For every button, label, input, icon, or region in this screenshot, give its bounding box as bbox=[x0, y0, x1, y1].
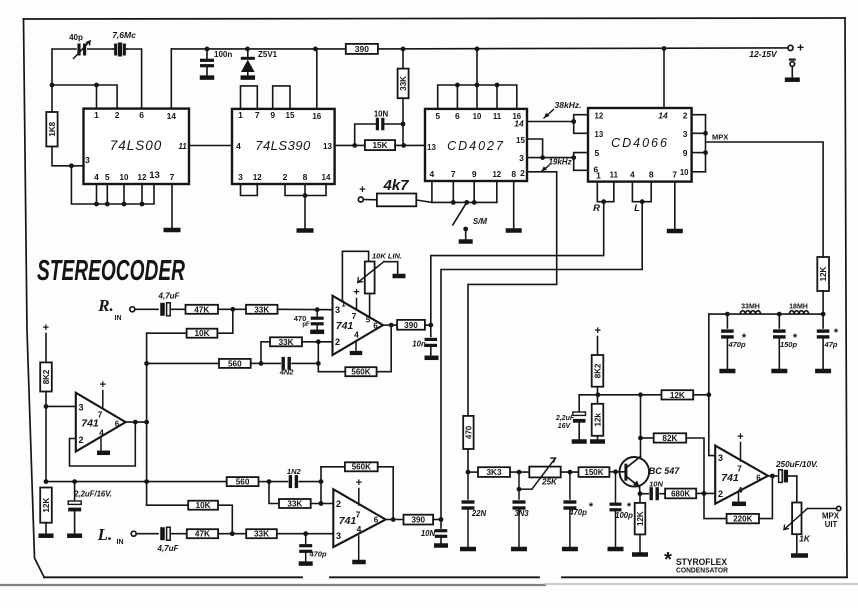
svg-text:7: 7 bbox=[672, 170, 677, 180]
op-amp U7 741 L channel bbox=[333, 477, 385, 560]
svg-text:10n: 10n bbox=[412, 340, 426, 349]
label 19kHz with arrow bbox=[542, 158, 572, 172]
wire output node bbox=[768, 475, 777, 477]
svg-text:741: 741 bbox=[81, 418, 99, 430]
wire CD4066 bottom R bus pins 1,11 bbox=[597, 182, 614, 202]
node junction 3N3 tap bbox=[517, 470, 522, 475]
svg-text:1: 1 bbox=[238, 110, 243, 120]
svg-text:15: 15 bbox=[516, 136, 525, 145]
wire L matrix bus bbox=[147, 481, 227, 483]
svg-text:560: 560 bbox=[236, 478, 250, 487]
resistor 33K L lower bbox=[246, 529, 277, 538]
svg-text:33MH: 33MH bbox=[741, 304, 760, 311]
svg-text:3: 3 bbox=[519, 153, 524, 163]
node junction 19kHz bracket bbox=[571, 155, 576, 160]
svg-text:1N2: 1N2 bbox=[287, 467, 302, 476]
svg-text:4: 4 bbox=[430, 169, 435, 179]
wire CD4066 pin14 to rail bbox=[663, 49, 665, 109]
wire to buffer pin3 bbox=[46, 405, 76, 407]
node junctions buffer output bbox=[133, 420, 149, 425]
svg-text:4N2: 4N2 bbox=[279, 368, 295, 377]
ground under 74LS00 pin7 bbox=[164, 228, 181, 233]
capacitor 250uF/10V output bbox=[775, 460, 818, 482]
svg-text:3: 3 bbox=[85, 155, 90, 165]
resistor 12K bias lower bbox=[40, 488, 52, 534]
svg-text:6: 6 bbox=[373, 322, 378, 331]
node junction pin3 R bbox=[315, 307, 320, 312]
potentiometer 4k7 bbox=[358, 177, 432, 206]
resistor 12K MPX drop bbox=[817, 257, 829, 314]
svg-text:220K: 220K bbox=[733, 514, 752, 523]
wire 15K to CD4027 pin13 bbox=[395, 144, 425, 146]
ground under buffer bbox=[97, 451, 110, 456]
svg-text:11: 11 bbox=[610, 171, 619, 180]
svg-text:13: 13 bbox=[427, 143, 436, 152]
wire 25K to 150K bbox=[561, 471, 579, 473]
transistor Q1 BC547 bbox=[620, 457, 681, 488]
wire 33K to pin3 R opamp bbox=[278, 308, 333, 310]
svg-text:16: 16 bbox=[312, 112, 321, 121]
resistor 10K L bbox=[147, 501, 233, 534]
capacitor 100n decoupling bbox=[200, 49, 232, 76]
wire mixer node to 3K3 bbox=[468, 471, 478, 473]
wire 390 to L line bbox=[433, 519, 441, 521]
svg-text:13: 13 bbox=[595, 130, 604, 139]
capacitor 3N3 bbox=[513, 472, 530, 547]
svg-text:82K: 82K bbox=[662, 434, 677, 443]
wire R matrix bus bbox=[147, 362, 219, 364]
svg-text:14: 14 bbox=[514, 119, 524, 129]
node junction buffer pin3 bbox=[44, 404, 49, 409]
resistor 680K bbox=[665, 489, 696, 499]
wire 74LS00 pin11 to 74LS390 pin4 bbox=[189, 145, 232, 147]
svg-text:2: 2 bbox=[78, 435, 83, 445]
svg-text:18MH: 18MH bbox=[789, 304, 808, 311]
svg-text:4,7uF: 4,7uF bbox=[157, 544, 180, 553]
svg-text:CD4066: CD4066 bbox=[611, 136, 669, 150]
wire 47K to 33K R bbox=[218, 308, 246, 310]
svg-text:2,2uF: 2,2uF bbox=[555, 415, 575, 422]
resistor 47K R bbox=[186, 305, 219, 314]
svg-text:5: 5 bbox=[105, 172, 110, 182]
svg-text:+: + bbox=[737, 431, 743, 443]
svg-text:741: 741 bbox=[339, 515, 357, 527]
wire pin3 CD4027 to CD4066 pins 5,6 bbox=[527, 153, 588, 171]
svg-text:9: 9 bbox=[270, 110, 275, 120]
svg-text:47p: 47p bbox=[824, 340, 838, 349]
node junctions CD4027 bottom bus bbox=[451, 200, 477, 205]
node junction mixer input bbox=[466, 470, 471, 475]
resistor 470 pilot bbox=[463, 416, 473, 449]
IC U4 CD4066 bbox=[588, 108, 692, 182]
wire buffer output bbox=[126, 421, 147, 423]
svg-text:40p: 40p bbox=[69, 33, 83, 42]
potentiometer 10K LIN offset bbox=[342, 251, 402, 317]
wire L opamp output bbox=[386, 519, 404, 521]
svg-text:12-15V: 12-15V bbox=[749, 49, 778, 59]
svg-text:3K3: 3K3 bbox=[486, 468, 501, 477]
wire top-left oscillator loop bbox=[52, 49, 142, 109]
label R channel bbox=[593, 203, 600, 214]
svg-text:10: 10 bbox=[120, 173, 129, 182]
svg-text:7,6Mc: 7,6Mc bbox=[112, 30, 136, 40]
wire 1K pot to ground bbox=[796, 534, 798, 553]
svg-text:+: + bbox=[43, 322, 49, 334]
resistor 390 L output bbox=[404, 515, 434, 525]
ground under 470p filter bbox=[719, 369, 735, 374]
svg-text:+: + bbox=[353, 287, 359, 299]
wire bias divider vertical bbox=[45, 392, 47, 482]
wire CD4027 pin8 to ground bbox=[513, 181, 515, 229]
node junction ground stem 74LS390 bbox=[303, 193, 308, 198]
resistor 12K emitter bbox=[635, 494, 646, 553]
svg-text:CD4027: CD4027 bbox=[447, 139, 505, 153]
svg-text:4: 4 bbox=[236, 141, 241, 151]
wire CD4066 right bracket pins 2,3,9,10 bbox=[692, 115, 706, 172]
wire collector riser bbox=[640, 395, 642, 456]
svg-text:MPX: MPX bbox=[712, 133, 728, 142]
wire 74LS00 pin7 to ground bbox=[171, 184, 173, 229]
node junction 4N2 right bbox=[316, 361, 321, 366]
svg-text:Z5V1: Z5V1 bbox=[258, 50, 278, 59]
capacitor 470p mixer bbox=[563, 472, 593, 547]
resistor 1K8 bbox=[46, 85, 83, 166]
svg-text:14: 14 bbox=[658, 111, 668, 121]
svg-text:33K: 33K bbox=[254, 305, 269, 314]
ground under 47p filter bbox=[815, 369, 831, 374]
wire filter rail bbox=[709, 313, 823, 315]
svg-text:7: 7 bbox=[255, 110, 260, 120]
ground under S/M switch bbox=[459, 239, 473, 244]
node junction R input node A bbox=[230, 307, 235, 312]
ground under 470p L bbox=[299, 561, 313, 566]
svg-text:R: R bbox=[593, 203, 600, 214]
ground under 12K emitter bbox=[632, 552, 648, 557]
svg-text:6: 6 bbox=[756, 474, 761, 483]
node junction collector top bbox=[638, 392, 643, 397]
capacitor 10N emitter bbox=[640, 480, 665, 501]
terminal R input bbox=[97, 296, 135, 322]
svg-text:13: 13 bbox=[149, 170, 160, 181]
wire pin13 74LS390 to 15K bbox=[335, 144, 365, 146]
label MPX UIT bbox=[822, 512, 840, 529]
ground under 470p mixer bbox=[562, 547, 578, 552]
capacitor 4N2 R bbox=[261, 357, 318, 377]
svg-text:7: 7 bbox=[356, 510, 361, 520]
svg-text:390: 390 bbox=[411, 516, 425, 525]
wire mixer supply plus bbox=[594, 325, 600, 355]
ground under 2,2uF left bbox=[67, 533, 82, 538]
svg-text:7: 7 bbox=[451, 169, 456, 179]
ground under zener bbox=[241, 75, 256, 80]
resistor 47K L bbox=[187, 529, 218, 538]
capacitor 10N L output bbox=[421, 520, 447, 544]
svg-text:BC 547: BC 547 bbox=[649, 466, 681, 476]
svg-text:R.: R. bbox=[97, 296, 114, 315]
node junction filter feed bbox=[706, 392, 711, 397]
wire 470 to mixer node bbox=[467, 449, 469, 472]
note styroflex condensator bbox=[664, 549, 728, 575]
wire L switch line to L opamp output bbox=[441, 202, 642, 520]
wire R switch line to R opamp output bbox=[431, 202, 604, 325]
svg-text:3: 3 bbox=[78, 403, 83, 413]
terminal L input bbox=[97, 525, 137, 546]
node junction 10N right bbox=[401, 122, 406, 127]
ground under 470pF bbox=[310, 330, 324, 335]
node junction pin3 L bbox=[303, 531, 308, 536]
wire 680K to pin2 of output opamp bbox=[696, 492, 715, 494]
capacitor 2,2uF/16V bias bbox=[68, 482, 112, 534]
node junction collector at 82K bbox=[638, 436, 643, 441]
wire pin15 CD4027 loop to pin3 wire bbox=[527, 139, 543, 158]
resistor 33K (vertical from rail) bbox=[398, 49, 409, 145]
svg-text:8: 8 bbox=[303, 172, 308, 182]
node junction pin15 join bbox=[540, 155, 545, 160]
resistor 220K feedback bbox=[704, 476, 772, 523]
svg-text:+: + bbox=[100, 379, 106, 391]
wire matrix spine vertical bbox=[146, 333, 148, 505]
ground under 12k mixer bbox=[590, 439, 605, 444]
svg-text:*: * bbox=[589, 501, 594, 513]
svg-text:7: 7 bbox=[170, 172, 175, 182]
zener diode Z5V1 bbox=[241, 49, 278, 76]
node junction L input node bbox=[230, 531, 235, 536]
capacitor 47p filter bbox=[817, 314, 839, 369]
svg-text:12: 12 bbox=[253, 173, 262, 182]
node junction filter cap3 bbox=[821, 312, 826, 317]
svg-text:4,7uF: 4,7uF bbox=[158, 292, 181, 301]
svg-text:5: 5 bbox=[595, 148, 600, 158]
wire 3K3 to 25K bbox=[510, 471, 529, 473]
inductor 33MH bbox=[740, 304, 760, 315]
svg-text:4: 4 bbox=[94, 172, 99, 182]
svg-text:6: 6 bbox=[115, 420, 120, 429]
ground under 10K LIN bbox=[393, 274, 406, 279]
svg-text:8: 8 bbox=[511, 169, 516, 179]
node junction 1N2 right bbox=[319, 479, 324, 484]
svg-text:*: * bbox=[627, 501, 632, 513]
resistor 8K2 mixer bbox=[592, 355, 604, 387]
node junctions on bottom bus bbox=[94, 202, 144, 207]
node junction L bus bbox=[640, 199, 645, 204]
svg-text:250uF/10V.: 250uF/10V. bbox=[775, 460, 818, 469]
svg-text:74LS00: 74LS00 bbox=[110, 138, 163, 153]
node junction emitter bbox=[638, 491, 643, 496]
resistor 560 R bbox=[219, 359, 251, 368]
svg-text:10N: 10N bbox=[374, 110, 389, 119]
node junction pin2 output opamp bbox=[702, 491, 707, 496]
svg-text:10: 10 bbox=[680, 168, 689, 177]
svg-text:1: 1 bbox=[596, 171, 601, 181]
resistor 33K L mid bbox=[269, 482, 333, 509]
node junction pin3 bus bbox=[69, 163, 74, 168]
wire 8K2 to junction bbox=[597, 387, 599, 404]
node junction at oscillator left bbox=[50, 83, 55, 88]
wire filter left drop bbox=[708, 314, 710, 395]
resistor 560K R feedback bbox=[318, 325, 391, 376]
svg-text:38kHz.: 38kHz. bbox=[555, 100, 582, 110]
svg-text:10N: 10N bbox=[421, 529, 436, 538]
node junction 15K right bbox=[401, 143, 406, 148]
ground under 22N bbox=[460, 547, 476, 552]
wire 74LS00 bottom bus bbox=[71, 166, 154, 204]
svg-text:IN: IN bbox=[117, 539, 124, 546]
svg-text:12K: 12K bbox=[636, 511, 645, 526]
svg-text:14: 14 bbox=[167, 111, 177, 121]
svg-text:13: 13 bbox=[323, 142, 332, 151]
svg-text:STEREOCODER: STEREOCODER bbox=[37, 255, 185, 287]
node junction L output bbox=[391, 517, 396, 522]
svg-text:7: 7 bbox=[98, 410, 103, 420]
svg-text:14: 14 bbox=[322, 173, 331, 182]
svg-text:3: 3 bbox=[336, 531, 341, 541]
op-amp U6 741 buffer bbox=[76, 379, 126, 452]
node junction pin2 L bbox=[319, 501, 324, 506]
svg-text:47K: 47K bbox=[195, 530, 210, 539]
wire R opamp output bbox=[383, 324, 397, 326]
svg-text:33K: 33K bbox=[278, 338, 293, 347]
svg-text:+: + bbox=[797, 41, 804, 55]
svg-text:390: 390 bbox=[404, 321, 418, 330]
svg-text:12: 12 bbox=[595, 112, 604, 121]
node junction filter cap1 bbox=[725, 312, 730, 317]
resistor 33K R upper bbox=[246, 305, 278, 314]
wire +12V power rail bbox=[171, 48, 788, 49]
svg-text:11: 11 bbox=[493, 112, 502, 121]
resistor 15K bbox=[365, 140, 395, 150]
wire 33K to pin3 L opamp bbox=[277, 533, 334, 535]
svg-text:8: 8 bbox=[649, 170, 654, 180]
wire 74LS00 pin14 riser bbox=[170, 49, 172, 109]
svg-text:74LS390: 74LS390 bbox=[255, 138, 311, 153]
capacitor 10N in parallel with 15K bbox=[355, 110, 403, 146]
capacitor 10n R output bbox=[412, 325, 437, 355]
wire 74LS390 bottom jumper pins 3-12 bbox=[241, 184, 258, 196]
node junction spine at bias wire bbox=[144, 479, 149, 484]
node junction 2,2uF tap bbox=[72, 479, 77, 484]
svg-text:22N: 22N bbox=[471, 509, 487, 518]
svg-text:8K2: 8K2 bbox=[593, 363, 602, 378]
svg-text:L: L bbox=[634, 203, 640, 214]
svg-text:470p: 470p bbox=[308, 550, 327, 559]
capacitor 470p filter bbox=[721, 314, 747, 369]
node junctions on power rail bbox=[205, 46, 667, 51]
svg-text:12k: 12k bbox=[593, 413, 602, 427]
svg-text:*: * bbox=[793, 332, 798, 344]
wire MPX output to filter bbox=[706, 142, 824, 257]
wire 150K to base bbox=[609, 471, 626, 473]
wire 74LS390 ground stem bbox=[304, 196, 306, 230]
wire 390 to R line bbox=[425, 324, 431, 326]
capacitor 470pF at R pin3 bbox=[294, 310, 324, 330]
ground under 1K pot bbox=[791, 553, 808, 558]
capacitor 22N bbox=[462, 472, 487, 547]
ground under L opamp bbox=[352, 560, 366, 565]
svg-text:+: + bbox=[359, 184, 365, 196]
svg-text:33K: 33K bbox=[254, 530, 269, 539]
wire pin2 node vertical R bbox=[317, 342, 319, 372]
resistor 150K bbox=[579, 467, 610, 477]
svg-text:CONDENSATOR: CONDENSATOR bbox=[676, 568, 728, 575]
title STEREOCODER bbox=[37, 255, 185, 287]
svg-text:33K: 33K bbox=[399, 76, 408, 91]
node junction bias at 12K bbox=[44, 479, 49, 484]
wire 38kHz pin14 CD4027 to CD4066 pins 12,13 bbox=[527, 115, 588, 134]
svg-text:4: 4 bbox=[357, 524, 362, 534]
ground under CD4027 pin8 bbox=[506, 228, 522, 233]
node junctions MPX bracket bbox=[703, 131, 708, 155]
ground under 10n R bbox=[425, 356, 439, 361]
svg-text:3: 3 bbox=[718, 453, 723, 463]
svg-text:2: 2 bbox=[683, 111, 688, 121]
label L channel bbox=[634, 203, 640, 214]
ground under 3N3 bbox=[511, 547, 527, 552]
svg-text:*: * bbox=[742, 332, 747, 344]
node junction pin2 R bbox=[316, 339, 321, 344]
svg-text:390: 390 bbox=[355, 44, 369, 54]
svg-text:3: 3 bbox=[335, 305, 340, 315]
switch S/M mono-stereo bbox=[453, 202, 488, 240]
svg-text:2: 2 bbox=[718, 489, 723, 499]
node junction left of 15K bbox=[352, 143, 357, 148]
ground under output opamp bbox=[732, 502, 746, 507]
svg-text:UIT: UIT bbox=[825, 520, 838, 529]
svg-text:12K: 12K bbox=[670, 391, 685, 400]
wire bias supply plus bbox=[43, 322, 49, 362]
svg-text:2,2uF/16V.: 2,2uF/16V. bbox=[73, 490, 112, 499]
svg-text:+: + bbox=[356, 477, 362, 489]
svg-text:100n: 100n bbox=[214, 50, 232, 59]
svg-text:680K: 680K bbox=[671, 489, 690, 498]
capacitor 2,2uF mixer bbox=[555, 395, 586, 440]
IC U3 CD4027 bbox=[425, 109, 527, 181]
svg-text:560K: 560K bbox=[352, 463, 371, 472]
node junction R bus bbox=[601, 199, 606, 204]
svg-text:33K: 33K bbox=[287, 499, 302, 508]
svg-text:150K: 150K bbox=[584, 468, 603, 477]
terminal minus with ground bbox=[789, 60, 796, 78]
op-amp U8 741 output bbox=[715, 431, 768, 504]
node junction 470p tap bbox=[568, 470, 573, 475]
wire buffer feedback loop bbox=[70, 422, 136, 466]
resistor 82K bbox=[641, 433, 705, 493]
svg-text:741: 741 bbox=[336, 320, 354, 332]
resistor 12k mixer bias bbox=[592, 404, 604, 440]
svg-text:47K: 47K bbox=[194, 305, 209, 314]
wire 47K to 33K L bbox=[218, 533, 246, 535]
wire filter feed to pin3 bbox=[709, 395, 715, 456]
ground under 10N L bbox=[434, 543, 448, 548]
svg-text:3: 3 bbox=[683, 129, 688, 139]
svg-text:10K: 10K bbox=[194, 329, 209, 338]
svg-text:7: 7 bbox=[737, 464, 742, 474]
wire 560 to node C R bbox=[251, 362, 261, 364]
node junction 100p tap bbox=[613, 469, 618, 474]
svg-text:10K: 10K bbox=[196, 501, 211, 510]
inductor 18MH bbox=[789, 304, 808, 315]
crystal X1 7,6Mc bbox=[112, 30, 136, 57]
wire 560 to node C L bbox=[259, 481, 270, 483]
svg-text:6: 6 bbox=[455, 111, 460, 121]
svg-text:4: 4 bbox=[354, 330, 359, 340]
svg-text:2: 2 bbox=[335, 337, 340, 347]
wire to 1K pot bbox=[796, 476, 798, 503]
wire CD4066 bottom L bus pins 4,8 bbox=[632, 182, 651, 202]
capacitor 1N2 L bbox=[269, 467, 321, 488]
svg-text:9: 9 bbox=[683, 148, 688, 158]
node junction node C R bbox=[259, 361, 264, 366]
node junction filter cap2 bbox=[777, 312, 782, 317]
